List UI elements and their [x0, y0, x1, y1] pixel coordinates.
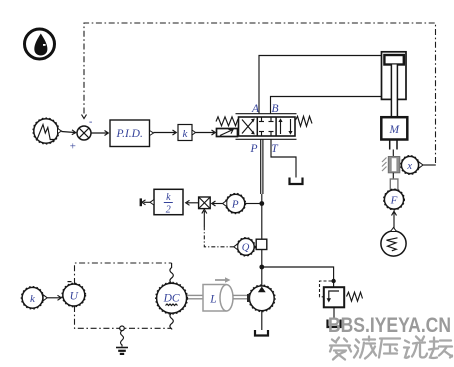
svg-text:B: B: [271, 103, 278, 115]
svg-text:DC: DC: [163, 293, 180, 305]
pump tank: [255, 330, 268, 336]
relief valve spring: [347, 292, 363, 301]
wire Q sensor to multiplier (dash-dot): [202, 209, 234, 247]
svg-text:U: U: [70, 290, 79, 302]
svg-text:2: 2: [166, 205, 171, 216]
hydraulic cylinder: [382, 52, 407, 100]
DC motor: [156, 282, 188, 314]
stub below mass: [390, 140, 397, 157]
valve right spring: [296, 116, 313, 126]
svg-text:k: k: [166, 192, 171, 203]
svg-text:P: P: [249, 143, 257, 155]
force input port: [390, 179, 398, 190]
svg-text:Q: Q: [242, 243, 250, 254]
valve left spring: [216, 117, 238, 126]
watermark Chinese characters: [330, 337, 452, 360]
junction node on supply line: [259, 201, 264, 206]
coupling shaft L to pump: [233, 294, 250, 302]
gain source k: [21, 287, 47, 310]
wire pressure sensor to supply line: [245, 203, 260, 205]
rotary load L: [203, 277, 233, 311]
svg-text:L: L: [209, 293, 216, 305]
wire load source to F (arrow up): [392, 211, 397, 229]
svg-text:x: x: [406, 161, 412, 172]
wire summing junction to PID: [91, 131, 108, 136]
PID controller block: [110, 120, 154, 147]
wire DC motor bottom squiggle: [170, 313, 173, 329]
piston: [384, 55, 403, 65]
ground squiggle: [121, 331, 124, 347]
svg-text:M: M: [389, 124, 401, 136]
wire supply line to pump: [261, 250, 263, 286]
wire B port to cylinder rod side: [271, 97, 382, 115]
feedback wire (dash-dot, x sensor to summing junction): [82, 23, 436, 163]
junction node pump/relief: [259, 265, 264, 270]
wire T port to tank: [271, 139, 296, 177]
svg-text:P.I.D.: P.I.D.: [116, 128, 143, 140]
valve left cell crossed arrows: [242, 119, 255, 135]
wire sensor to force port: [392, 173, 394, 179]
electrical loop wire (dash-dot top): [75, 263, 172, 284]
mass block M: [381, 117, 407, 139]
relief valve pilot line (dashed): [320, 281, 332, 297]
wire PID to gain k: [154, 130, 177, 135]
wire multiplier to gain k/2: [186, 200, 198, 205]
multiplier X: [199, 197, 211, 209]
relief tank: [328, 320, 341, 328]
wire source to summing junction: [62, 130, 76, 135]
wire Q sensor to element: [254, 246, 256, 248]
svg-text:-: -: [89, 117, 92, 128]
P supply pipe (double line): [261, 139, 263, 239]
pressure sensor P: [223, 193, 246, 213]
signal source W1: [33, 118, 62, 144]
wire relief valve to tank: [333, 307, 335, 319]
displacement transducer x: [401, 156, 424, 175]
wire k to U: [47, 295, 61, 300]
relief valve: [324, 287, 344, 307]
svg-text:F: F: [390, 195, 398, 207]
valve centre cell blocked ports: [259, 118, 274, 136]
load signal source: [381, 228, 406, 257]
tank T1: [290, 178, 303, 185]
svg-text:P: P: [231, 199, 239, 211]
junction node relief pilot: [331, 279, 335, 283]
flow sensor Q: [234, 238, 255, 257]
summing junction: [69, 117, 92, 153]
valve body (4/3 proportional valve): [236, 114, 297, 140]
node on bottom wire: [120, 326, 125, 331]
wire k/2 to output terminal: [142, 200, 150, 205]
wire DC motor top squiggle: [170, 263, 173, 283]
wire pump to tank: [261, 311, 263, 330]
valve right cell parallel arrows: [278, 118, 292, 134]
pump: [248, 285, 275, 312]
logo droplet emblem: [25, 29, 55, 59]
wire x transducer to feedback line: [423, 164, 436, 166]
wire P sensor to multiplier: [212, 201, 223, 206]
force transducer F: [384, 189, 405, 210]
voltage source U: [62, 282, 86, 307]
svg-text:+: +: [69, 141, 76, 153]
coupling shaft DC to L: [187, 295, 203, 298]
proportional solenoid: [217, 129, 238, 137]
wire A port to cylinder head side: [259, 56, 382, 115]
wire junction to relief valve: [262, 267, 334, 287]
electrical loop wire (dash-dot bottom): [75, 306, 172, 328]
gain block k: [178, 125, 196, 141]
output terminal: [140, 198, 142, 206]
position sensor body: [382, 157, 400, 173]
ground: [116, 348, 128, 354]
gain block k/2: [150, 189, 183, 215]
piston rod: [391, 65, 397, 118]
wire k to valve solenoid: [196, 130, 216, 135]
svg-text:BBS.IYEYA.CN: BBS.IYEYA.CN: [328, 313, 451, 337]
flow sensor element on line: [256, 239, 267, 249]
